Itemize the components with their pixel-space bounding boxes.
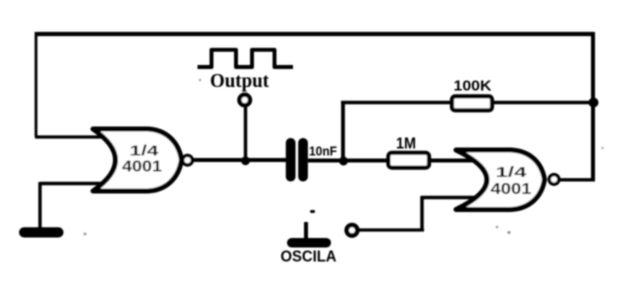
- wire ground drop: [38, 182, 41, 230]
- svg-text:1M: 1M: [396, 136, 416, 153]
- svg-text:100K: 100K: [454, 79, 493, 95]
- svg-text:4001: 4001: [491, 181, 532, 198]
- wire bottom input vertical: [420, 196, 424, 230]
- terminal Output: [239, 95, 250, 106]
- resistor R2 100K: [452, 96, 492, 110]
- wire U1b bottom input: [421, 196, 478, 200]
- wire right rail to U1b output: [559, 178, 595, 181]
- capacitor C1: [286, 138, 308, 182]
- wire right rail: [591, 32, 595, 180]
- wire U1a output to C1: [193, 158, 287, 162]
- speck noise: [83, 79, 603, 236]
- wire U1a bottom input: [40, 182, 112, 185]
- wire feedback vertical: [341, 103, 345, 161]
- svg-text:1/4: 1/4: [130, 144, 159, 160]
- waveform square wave icon: [198, 50, 294, 67]
- svg-text:1/4: 1/4: [496, 165, 527, 181]
- oscillator plate: [287, 238, 331, 248]
- svg-text:4001: 4001: [122, 159, 162, 176]
- wire output stub: [244, 104, 247, 160]
- wire R2 right segment: [494, 101, 594, 105]
- svg-text:Output: Output: [210, 70, 269, 92]
- svg-text:10nF: 10nF: [309, 144, 337, 159]
- wire C1 to R1: [308, 159, 388, 163]
- resistor R1 1M: [388, 153, 429, 168]
- node right rail junction: [589, 98, 599, 108]
- wire left rail: [35, 32, 38, 137]
- wire U1a top input: [35, 135, 112, 138]
- wire R2 left segment: [341, 101, 451, 105]
- NOR gate U1a (1/4 4001): [93, 129, 192, 191]
- svg-text:OSCILA: OSCILA: [281, 249, 337, 266]
- node feedback junction: [339, 157, 348, 166]
- wire terminal to bottom input: [358, 228, 424, 231]
- terminal input: [347, 225, 358, 236]
- wire R1 to U1b input: [431, 159, 475, 163]
- node dot above oscillator: [310, 210, 315, 213]
- node output junction: [241, 156, 250, 165]
- wire top rail: [36, 32, 594, 36]
- oscillator stub wire: [304, 222, 308, 240]
- NOR gate U1b (1/4 4001): [456, 150, 559, 210]
- ground: [19, 227, 64, 237]
